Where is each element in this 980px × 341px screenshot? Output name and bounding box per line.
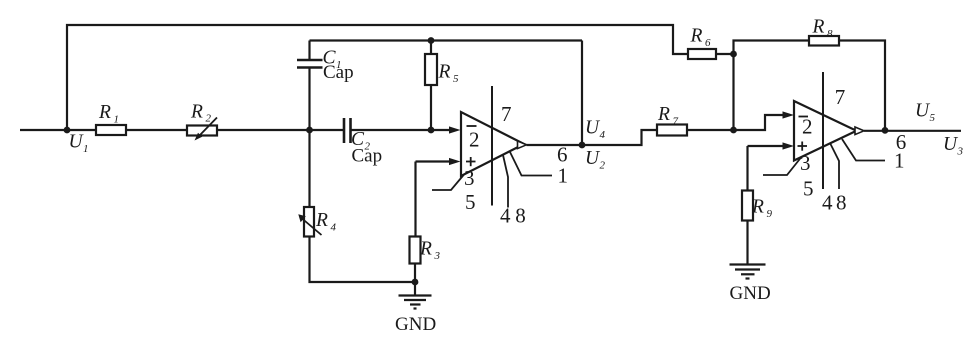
minus input arrow of op-amp 1 xyxy=(449,126,461,133)
op-amp U1A triangle xyxy=(461,112,524,176)
svg-text:6: 6 xyxy=(557,143,568,167)
wire R5 top lead xyxy=(430,41,432,55)
wire main input from left edge to R1 xyxy=(20,129,96,131)
svg-text:2: 2 xyxy=(802,115,813,139)
wire R2 to C2 node xyxy=(217,129,344,131)
node dot U2/U4 xyxy=(579,142,586,149)
label R3 xyxy=(419,238,441,261)
op-amp2 plus sign xyxy=(798,142,808,151)
op-amp2 minus sign xyxy=(799,116,809,118)
svg-text:1: 1 xyxy=(83,143,89,155)
op-amp1 plus sign xyxy=(466,157,476,166)
svg-text:8: 8 xyxy=(836,190,847,214)
label GND right xyxy=(730,283,771,304)
op-amp1 pin7 label xyxy=(501,102,512,126)
resistor R4 (adjustable) xyxy=(304,207,314,237)
resistor R3 xyxy=(410,237,421,264)
svg-text:R: R xyxy=(690,26,703,47)
svg-text:5: 5 xyxy=(453,73,459,85)
wire top C1 feedback line xyxy=(310,39,583,41)
plus input arrow of op-amp 1 xyxy=(449,158,461,165)
resistor R7 xyxy=(657,125,687,136)
op-amp1 output arrow xyxy=(518,141,527,149)
svg-text:R: R xyxy=(98,102,111,123)
ground symbol right xyxy=(730,265,766,279)
label U3 xyxy=(943,134,964,158)
resistor R5 xyxy=(425,54,437,85)
wire C1 branch vertical upper xyxy=(308,41,310,60)
op-amp1 pin1 label xyxy=(558,163,569,187)
label U5 xyxy=(915,101,936,125)
op-amp2 pin1 label xyxy=(894,149,905,173)
wire node to op-amp2 minus input xyxy=(734,115,784,130)
wire node up and right to R8 xyxy=(734,41,810,55)
svg-text:1: 1 xyxy=(114,114,120,126)
resistor R1 xyxy=(96,125,126,135)
label U2 xyxy=(585,148,606,172)
svg-text:GND: GND xyxy=(395,314,436,335)
op-amp1 pin8 line xyxy=(503,155,508,208)
svg-text:2: 2 xyxy=(206,113,212,125)
svg-text:7: 7 xyxy=(501,102,512,126)
svg-text:R: R xyxy=(812,17,825,38)
op-amp1 pin5 label xyxy=(465,190,476,214)
wire R9 bottom to ground xyxy=(746,221,748,265)
resistor R8 xyxy=(809,36,839,46)
svg-text:3: 3 xyxy=(957,146,964,158)
node dot ground junction xyxy=(412,279,419,286)
label C2 xyxy=(351,129,371,153)
node dot R5 top xyxy=(428,37,435,44)
svg-text:6: 6 xyxy=(896,130,907,154)
node dot U1 xyxy=(64,127,71,134)
svg-text:2: 2 xyxy=(469,128,480,152)
svg-text:9: 9 xyxy=(767,208,773,220)
wire C1 bottom to main line xyxy=(308,69,310,131)
op-amp2 pin4 label xyxy=(822,190,833,214)
op-amp2 pin8 line xyxy=(830,143,839,189)
label R1 xyxy=(98,102,119,126)
node dot R6 output xyxy=(730,51,737,58)
svg-text:R: R xyxy=(419,238,432,259)
op-amp2 pin5 stub xyxy=(763,158,801,176)
wire R8 right and down to output node xyxy=(839,41,885,131)
op-amp1 minus sign xyxy=(467,125,477,127)
label R6 xyxy=(690,26,712,50)
wire op-amp2 output to right edge xyxy=(864,130,961,132)
resistor R6 xyxy=(688,49,716,59)
arrow of R2 xyxy=(195,118,218,141)
label U4 xyxy=(585,118,606,142)
node dot output U5 xyxy=(882,127,889,134)
wire op-amp2 plus input xyxy=(748,145,784,147)
svg-text:8: 8 xyxy=(827,28,833,40)
plus input arrow of op-amp 2 xyxy=(783,142,795,149)
wire plus input down to R3 xyxy=(414,162,416,237)
op-amp2 pin6 label xyxy=(896,130,907,154)
label C1 Cap xyxy=(323,62,354,83)
op-amp1 pin1 stub xyxy=(510,152,552,176)
svg-text:6: 6 xyxy=(705,37,711,49)
op-amp2 pin7/4 line xyxy=(822,72,824,189)
wire U2 node to R7 xyxy=(582,130,657,145)
op-amp1 pin4 label xyxy=(500,204,511,228)
op-amp2 pin8 label xyxy=(836,190,847,214)
svg-text:GND: GND xyxy=(730,283,771,304)
ground symbol left xyxy=(399,296,432,309)
svg-text:8: 8 xyxy=(515,204,526,228)
wire op-amp1 output to U2 node xyxy=(527,144,583,146)
svg-text:5: 5 xyxy=(465,190,476,214)
svg-text:5: 5 xyxy=(930,112,936,124)
node dot at C1/R4 branch xyxy=(306,127,313,134)
label R7 xyxy=(657,104,679,128)
wire R5 bottom lead xyxy=(430,85,432,130)
op-amp2 pin3 label xyxy=(800,151,811,175)
op-amp2 pin2 label xyxy=(802,115,813,139)
op-amp2 pin7 label xyxy=(835,85,846,109)
ground stub left xyxy=(414,282,416,295)
wire op-amp1 plus input xyxy=(416,160,451,162)
svg-text:R: R xyxy=(315,210,328,231)
label U1 xyxy=(69,132,89,156)
label R9 xyxy=(751,197,773,221)
wire C2 to op-amp U1A minus input xyxy=(351,129,451,131)
wire R4 bottom to ground junction xyxy=(310,237,416,283)
resistor R2 (adjustable) xyxy=(187,126,217,136)
wire plus input down to R9 xyxy=(746,146,748,191)
wire node down to R7 line xyxy=(732,54,734,130)
svg-text:R: R xyxy=(190,101,203,122)
wire R7 to node xyxy=(687,129,734,131)
arrow of R4 xyxy=(298,214,321,235)
op-amp U2A triangle xyxy=(794,101,857,161)
svg-text:7: 7 xyxy=(835,85,846,109)
label R5 xyxy=(438,62,460,86)
svg-text:R: R xyxy=(438,62,451,83)
svg-text:4: 4 xyxy=(331,221,337,233)
wire R4 branch vertical xyxy=(308,130,310,207)
svg-text:Cap: Cap xyxy=(323,62,354,83)
label GND left xyxy=(395,314,436,335)
svg-text:Cap: Cap xyxy=(352,146,383,167)
svg-text:7: 7 xyxy=(673,116,679,128)
op-amp1 pin7/4 line xyxy=(491,86,493,206)
svg-text:1: 1 xyxy=(558,163,569,187)
op-amp1 pin5 stub xyxy=(432,175,464,191)
resistor R9 xyxy=(742,191,753,221)
label R2 xyxy=(190,101,212,124)
svg-text:2: 2 xyxy=(600,160,606,172)
wire U2 node up to top feedback xyxy=(581,41,583,146)
op-amp1 pin8 label xyxy=(515,204,526,228)
wire R1 to R2 xyxy=(126,129,187,131)
svg-text:4: 4 xyxy=(600,129,606,141)
op-amp1 pin2 label xyxy=(469,128,480,152)
svg-text:4: 4 xyxy=(822,190,833,214)
op-amp2 output arrow xyxy=(855,127,864,135)
label R4 xyxy=(315,210,337,234)
svg-text:4: 4 xyxy=(500,204,511,228)
op-amp2 pin5 label xyxy=(803,177,814,201)
node dot R7 right xyxy=(730,127,737,134)
svg-text:5: 5 xyxy=(803,177,814,201)
op-amp1 pin6 label xyxy=(557,143,568,167)
svg-text:3: 3 xyxy=(800,151,811,175)
svg-text:R: R xyxy=(751,197,764,218)
capacitor C2 xyxy=(344,118,351,143)
label C1 xyxy=(323,48,342,72)
wire top feedback U1 to R6 xyxy=(67,25,688,130)
wire R3 bottom to junction xyxy=(414,264,416,283)
op-amp2 pin1 stub xyxy=(842,139,885,161)
node dot R5 bottom xyxy=(428,127,435,134)
minus input arrow of op-amp 2 xyxy=(783,111,795,118)
op-amp1 pin3 label xyxy=(464,166,475,190)
capacitor C1 xyxy=(297,60,323,68)
label R8 xyxy=(812,17,834,41)
wire R6 to node xyxy=(716,53,734,55)
svg-text:3: 3 xyxy=(464,166,475,190)
label C2 Cap xyxy=(352,146,383,167)
svg-text:3: 3 xyxy=(434,250,441,262)
svg-text:R: R xyxy=(657,104,670,125)
